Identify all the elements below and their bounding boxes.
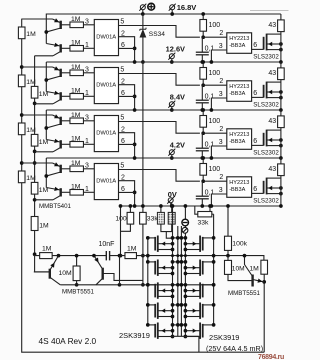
svg-text:4S 40A Rev 2.0: 4S 40A Rev 2.0 (39, 336, 97, 346)
ic U8 HY2213-BB3A (227, 177, 252, 198)
svg-text:43: 43 (268, 22, 276, 29)
resistor 100 section 1 (202, 14, 204, 20)
svg-text:6: 6 (253, 90, 257, 97)
wire pin6 HY 1 (252, 48, 264, 50)
wire bank row bridge (173, 261, 186, 263)
svg-text:2SK3919: 2SK3919 (209, 333, 239, 342)
svg-text:SLS2302: SLS2302 (253, 54, 279, 61)
wire bank mid column 1 (177, 226, 179, 336)
terminal pad minus 2 (182, 227, 188, 233)
svg-text:1M: 1M (71, 16, 81, 23)
svg-text:HY2213: HY2213 (229, 180, 249, 186)
node chain junction (33, 102, 37, 106)
capacitor 0.1 section 2 (201, 85, 203, 100)
ic U1 DW01A (94, 20, 118, 56)
transistor 2SK3919 (148, 237, 155, 239)
svg-text:5: 5 (120, 19, 124, 26)
svg-text:MMBT5401: MMBT5401 (39, 203, 72, 210)
svg-text:1: 1 (85, 138, 89, 145)
svg-text:10M: 10M (232, 266, 245, 273)
wire B+ sense column (142, 62, 144, 285)
wire hatched pair bottom (161, 224, 173, 238)
svg-text:-BB3A: -BB3A (229, 139, 245, 145)
wire emitter tap section 1 (22, 18, 53, 20)
svg-text:1M: 1M (249, 265, 259, 272)
svg-text:76894.ru: 76894.ru (258, 354, 284, 360)
wire pin3 HY 4 (211, 194, 226, 206)
svg-text:10M: 10M (59, 270, 73, 277)
wire bank drain rail right (184, 206, 186, 336)
svg-text:4.2V: 4.2V (170, 140, 185, 149)
wire top 16.8V rail (46, 13, 281, 15)
svg-text:100k: 100k (232, 241, 247, 248)
wire 12.6V rail (46, 61, 281, 63)
node crossings gate rails (171, 254, 174, 257)
wire pin2 section 2 (119, 85, 135, 110)
wire bank gate column left (147, 238, 149, 325)
svg-text:-BB3A: -BB3A (229, 187, 245, 193)
wire pin2 HY 1 (203, 36, 227, 38)
svg-text:1M: 1M (71, 184, 81, 191)
svg-text:1M: 1M (71, 40, 81, 47)
svg-text:0V: 0V (168, 190, 177, 199)
svg-text:0,1: 0,1 (205, 94, 215, 101)
wire emitter tap section 2 (22, 66, 53, 68)
wire 4.2V rail (46, 157, 281, 159)
transistor Q6 MMBT5401 lower (46, 140, 60, 143)
node rail-A tap 4 (20, 161, 24, 165)
svg-text:SLS2302: SLS2302 (253, 102, 279, 109)
transistor 2SK3919 (148, 284, 155, 286)
transistor SLS2302 section 1 (263, 37, 265, 50)
resistor 10M left (76, 256, 78, 266)
svg-text:0,1: 0,1 (205, 190, 215, 197)
wire pin2 HY 4 (203, 180, 227, 182)
transistor 2SK3919 (148, 304, 155, 306)
resistor 100 section 3 (202, 110, 204, 116)
transistor Q7 MMBT5551 right (251, 275, 253, 287)
wire delay column (120, 206, 122, 256)
svg-text:3: 3 (219, 139, 223, 146)
svg-text:5: 5 (120, 67, 124, 74)
wire pin6 section 1 (119, 47, 135, 49)
wire pin6 section 4 (119, 191, 135, 193)
resistor 1M bottom left (40, 253, 53, 259)
wire pin2 HY 2 (203, 84, 227, 86)
svg-text:HY2213: HY2213 (229, 36, 249, 42)
svg-text:2: 2 (219, 78, 223, 85)
node pin2 junction 4 (201, 179, 205, 183)
transistor 2SK3919 (203, 284, 214, 286)
svg-text:1M: 1M (42, 246, 52, 253)
svg-text:100: 100 (209, 22, 221, 29)
svg-text:43: 43 (268, 118, 276, 125)
resistor 100 bottom (129, 206, 131, 212)
svg-text:3: 3 (85, 115, 89, 122)
wire pin6 HY 2 (252, 96, 264, 98)
terminal pad 8.4V (169, 102, 174, 107)
resistor 1M rail-A section 4 (18, 171, 25, 183)
svg-text:43: 43 (268, 70, 276, 77)
resistor 1M chain 4 (31, 217, 38, 231)
transistor Q5 MMBT5551 left (49, 269, 51, 279)
wire pin6 section 3 (119, 143, 135, 145)
ic U3 DW01A (94, 116, 118, 152)
wire pin2 section 3 (119, 133, 135, 158)
svg-text:16.8V: 16.8V (177, 3, 197, 12)
svg-text:1M: 1M (127, 246, 137, 253)
transistor Q7 MMBT5401 upper (53, 163, 61, 167)
svg-text:1M: 1M (26, 31, 36, 38)
resistor 1M chain 2 (31, 134, 38, 146)
wire bank bottom bus (171, 335, 199, 337)
svg-text:2: 2 (219, 126, 223, 133)
terminal pad minus 1 (182, 219, 189, 226)
resistor 1M rail-A section 3 (18, 123, 25, 135)
wire bank row bridge (173, 304, 186, 306)
wire collector drop section 4 (45, 158, 47, 188)
svg-text:DW01A: DW01A (96, 179, 116, 185)
resistor 1M base lower section 2 (61, 95, 70, 97)
svg-text:43: 43 (268, 166, 276, 173)
transistor 2SK3919 (148, 324, 155, 326)
svg-text:MMBT5551: MMBT5551 (62, 289, 95, 296)
node rail-A tap 2 (20, 65, 24, 69)
svg-text:0,1: 0,1 (205, 142, 215, 149)
svg-text:100: 100 (209, 118, 221, 125)
svg-text:1M: 1M (71, 64, 81, 71)
wire divider chain (35, 56, 50, 272)
resistor 1M right (261, 260, 268, 274)
svg-text:8.4V: 8.4V (170, 92, 185, 101)
svg-text:12.6V: 12.6V (166, 44, 185, 53)
svg-text:3: 3 (219, 187, 223, 194)
resistor 1M rail-A section 1 (18, 27, 25, 39)
resistor 1M base upper section 2 (61, 72, 70, 74)
resistor 1M base lower section 3 (61, 143, 70, 145)
resistor 1M base upper section 3 (61, 120, 70, 122)
svg-text:DW01A: DW01A (96, 83, 116, 89)
capacitor 0.1 section 3 (201, 133, 203, 148)
terminal pad 0V (168, 198, 173, 203)
terminal pad 16.8V (170, 5, 175, 10)
wire pin5 section 4 (119, 170, 200, 182)
wire P- bus riser right (263, 282, 265, 352)
svg-text:33k: 33k (198, 219, 210, 226)
ic U6 HY2213-BB3A (227, 81, 252, 102)
transistor Q5 MMBT5401 upper (53, 115, 61, 119)
svg-text:SS34: SS34 (149, 31, 165, 38)
resistor 100k (227, 206, 229, 236)
wire collector drop section 1 (45, 14, 47, 44)
terminal plus symbol (148, 3, 155, 10)
resistor 43 section 1 (280, 14, 282, 20)
terminal pad 4.2V (169, 150, 174, 155)
resistor 1M base lower section 4 (61, 191, 70, 193)
wire pin2 HY 3 (203, 132, 227, 134)
resistor 1M base upper section 4 (61, 168, 70, 170)
svg-text:100: 100 (115, 216, 127, 223)
node chain junction (33, 198, 37, 202)
transistor Q1 MMBT5401 upper (53, 19, 61, 23)
resistor 43 section 2 (280, 62, 282, 68)
wire collector drop section 2 (45, 62, 47, 92)
svg-text:2SK3919: 2SK3919 (119, 331, 150, 340)
transistor Q6 MMBT5551 mid (101, 268, 103, 280)
svg-text:2: 2 (219, 174, 223, 181)
transistor Q8 MMBT5401 lower (46, 188, 60, 191)
svg-text:HY2213: HY2213 (229, 132, 249, 138)
svg-text:-BB3A: -BB3A (229, 43, 245, 49)
capacitor 10nF (105, 251, 107, 260)
resistor 1M chain 3 (31, 182, 38, 194)
capacitor 0.1 section 1 (201, 37, 203, 52)
svg-text:10nF: 10nF (99, 241, 115, 248)
wire emitter tap section 3 (22, 114, 53, 116)
svg-text:3: 3 (85, 19, 89, 26)
node chain junction (33, 252, 37, 256)
wire pin2 section 4 (119, 181, 135, 206)
wire bank row bridge (173, 324, 186, 326)
svg-text:5: 5 (120, 163, 124, 170)
svg-text:-BB3A: -BB3A (229, 91, 245, 97)
wire pin5 section 3 (119, 122, 200, 134)
wire gate rail 1 (34, 256, 264, 261)
diode SS34 (142, 14, 144, 29)
transistor 2SK3919 (203, 304, 214, 306)
transistor SLS2302 section 2 (263, 85, 265, 98)
transistor Q2 MMBT5401 lower (46, 44, 60, 47)
resistor NTC hatched 1 (160, 206, 162, 212)
resistor 43 section 4 (280, 158, 282, 164)
svg-text:3: 3 (219, 43, 223, 50)
wire pin6 section 2 (119, 95, 135, 97)
svg-text:(25V 64A 4.5 mR): (25V 64A 4.5 mR) (206, 344, 263, 353)
resistor 33k sense (140, 212, 147, 224)
svg-text:6: 6 (253, 42, 257, 49)
resistor 33k gate (195, 206, 198, 214)
transistor Q4 MMBT5401 lower (46, 92, 60, 95)
svg-text:DW01A: DW01A (96, 131, 116, 137)
svg-text:1M: 1M (39, 223, 49, 230)
svg-text:1M: 1M (71, 136, 81, 143)
terminal pad 12.6V (169, 54, 174, 59)
wire bank drain rail left (172, 206, 174, 336)
svg-text:1: 1 (85, 186, 89, 193)
wire 8.4V rail (46, 109, 281, 111)
svg-text:0,1: 0,1 (205, 46, 215, 53)
svg-text:5: 5 (120, 115, 124, 122)
wire bank row bridge (173, 284, 186, 286)
svg-text:3: 3 (219, 91, 223, 98)
svg-text:MMBT5551: MMBT5551 (228, 290, 261, 297)
ic U4 DW01A (94, 164, 118, 200)
svg-text:SLS2302: SLS2302 (253, 150, 279, 157)
resistor 100 section 4 (202, 158, 204, 164)
transistor SLS2302 section 3 (263, 133, 265, 146)
svg-text:1: 1 (85, 90, 89, 97)
transistor 2SK3919 (148, 261, 155, 263)
grey frame top right (250, 10, 289, 12)
svg-text:3: 3 (85, 67, 89, 74)
wire pin5 section 1 (119, 26, 200, 38)
wire left sense rail (22, 19, 265, 353)
svg-text:HY2213: HY2213 (229, 84, 249, 90)
svg-text:6: 6 (253, 138, 257, 145)
resistor 1M base lower section 1 (61, 47, 70, 49)
wire emitter tap section 4 (22, 162, 53, 164)
svg-text:1M: 1M (71, 160, 81, 167)
transistor 2SK3919 (203, 261, 214, 263)
wire pin5 section 2 (119, 74, 200, 86)
node q-left collector (57, 254, 61, 258)
resistor 1M bottom mid (125, 253, 137, 259)
wire pin6 HY 3 (252, 144, 264, 146)
wire pin3 HY 1 (211, 50, 226, 62)
wire pin2 section 1 (119, 37, 135, 62)
svg-text:33k: 33k (147, 216, 159, 223)
wire bank row bridge (173, 237, 186, 239)
svg-text:SLS2302: SLS2302 (253, 198, 279, 205)
node chain junction (33, 150, 37, 154)
svg-text:1M: 1M (71, 88, 81, 95)
wire pin3 HY 3 (211, 146, 226, 158)
transistor 2SK3919 (203, 237, 214, 239)
node pin2 junction 2 (201, 83, 205, 87)
svg-text:DW01A: DW01A (96, 35, 116, 41)
capacitor 0.1 section 4 (201, 181, 203, 196)
resistor 1M base upper section 1 (61, 24, 70, 26)
wire gate rail 2 (60, 284, 213, 286)
node pin2 junction 3 (201, 131, 205, 135)
wire 0V rail (121, 205, 281, 207)
resistor 43 section 3 (280, 110, 282, 116)
wire pin6 HY 4 (252, 192, 264, 194)
svg-text:100: 100 (209, 70, 221, 77)
node chain crossing tap (33, 161, 37, 165)
node rail-A tap 3 (20, 113, 24, 117)
wire bank gate column right (213, 214, 215, 325)
svg-text:3: 3 (85, 163, 89, 170)
svg-text:100: 100 (209, 166, 221, 173)
node pin2 junction 1 (201, 35, 205, 39)
ic U5 HY2213-BB3A (227, 33, 252, 54)
transistor SLS2302 section 4 (263, 181, 265, 194)
ic U2 DW01A (94, 68, 118, 104)
resistor 10M right (227, 256, 229, 261)
resistor NTC hatched 2 (171, 203, 173, 213)
wire bank mid column 2 (180, 226, 182, 336)
wire P- bus riser left (198, 336, 200, 352)
terminal pad B+ (140, 5, 145, 10)
wire collector drop section 3 (45, 110, 47, 140)
wire pin3 HY 2 (211, 98, 226, 110)
svg-text:2: 2 (219, 30, 223, 37)
resistor 100 section 2 (202, 62, 204, 68)
svg-text:6: 6 (253, 186, 257, 193)
ic U7 HY2213-BB3A (227, 129, 252, 150)
resistor 1M chain 1 (31, 86, 38, 98)
node cap right (118, 254, 122, 258)
transistor 2SK3919 (203, 324, 214, 326)
svg-text:1M: 1M (71, 112, 81, 119)
svg-text:1: 1 (85, 42, 89, 49)
resistor 1M rail-A section 2 (18, 75, 25, 87)
transistor Q3 MMBT5401 upper (53, 67, 61, 71)
